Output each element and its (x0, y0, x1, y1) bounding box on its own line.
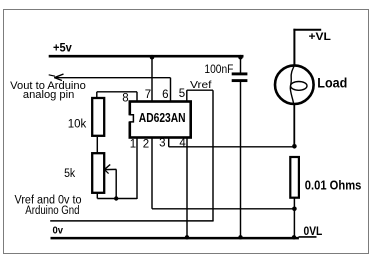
svg-text:2: 2 (143, 138, 149, 150)
svg-text:0v: 0v (53, 224, 64, 236)
svg-text:10k: 10k (68, 118, 87, 130)
svg-text:AD623AN: AD623AN (139, 111, 186, 125)
svg-text:0VL: 0VL (304, 224, 323, 238)
svg-text:Vref: Vref (190, 79, 212, 91)
svg-text:+5v: +5v (53, 41, 72, 55)
svg-text:analog pin: analog pin (23, 89, 74, 101)
svg-text:Arduino Gnd: Arduino Gnd (25, 205, 79, 217)
svg-text:Load: Load (317, 75, 347, 91)
svg-text:1: 1 (130, 138, 136, 150)
svg-text:8: 8 (122, 92, 128, 104)
svg-text:+VL: +VL (309, 31, 332, 43)
svg-text:6: 6 (162, 89, 168, 101)
svg-text:0.01 Ohms: 0.01 Ohms (305, 177, 362, 192)
svg-text:7: 7 (145, 89, 151, 101)
svg-text:4: 4 (179, 137, 186, 149)
svg-text:3: 3 (159, 138, 165, 150)
svg-text:5: 5 (179, 88, 185, 100)
svg-text:5k: 5k (64, 168, 75, 180)
svg-text:100nF: 100nF (204, 64, 233, 76)
